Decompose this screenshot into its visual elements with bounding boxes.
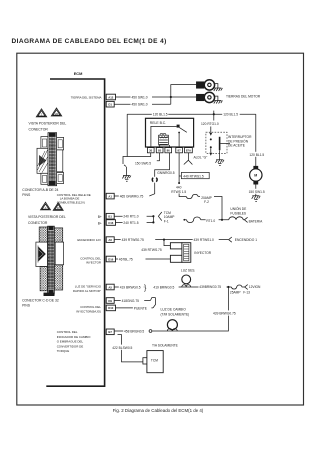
svg-text:120 BL1.5: 120 BL1.5 (249, 153, 264, 157)
battery feed line (184, 219, 244, 221)
relay box RELE B.C. (146, 118, 194, 147)
label 440 / RTWS 1.5 (171, 185, 189, 194)
wire 419 BRWG0.5 from A5 (114, 286, 245, 288)
centre pin strip (48, 226, 55, 294)
svg-text:DIAGRAMA DE CABLEADO DEL ECM(1: DIAGRAMA DE CABLEADO DEL ECM(1 DE 4) (12, 38, 167, 45)
arrow 12VIGN (245, 285, 248, 290)
svg-text:A1: A1 (108, 194, 112, 198)
svg-text:10AMP: 10AMP (164, 215, 175, 219)
svg-text:CONTROL DEL: CONTROL DEL (80, 305, 101, 309)
node junction dot injector branch (163, 239, 165, 241)
svg-text:150 SW1.5: 150 SW1.5 (249, 190, 265, 194)
fusible link UNION DE FUSIBLES (229, 217, 243, 220)
node junction dot on 120 BL1.5 (213, 113, 215, 115)
label 419 BRWG0.5 second (153, 284, 179, 289)
svg-text:CONVERTIDOR DE: CONVERTIDOR DE (57, 344, 84, 348)
wire right corner of 120 BL1.5 down to oil sender (255, 114, 257, 166)
svg-text:BATERIA: BATERIA (249, 220, 263, 224)
lamp LUZ DE CAMBIO (167, 320, 177, 330)
svg-text:120 RTG1.0: 120 RTG1.0 (201, 122, 219, 126)
warning triangle 3 (41, 202, 51, 210)
svg-text:F-1: F-1 (164, 219, 169, 223)
wire relay pin87A to ALDL (184, 153, 193, 165)
svg-text:120 BL1.5: 120 BL1.5 (153, 112, 168, 116)
relay pin 87 internal stub (178, 133, 180, 147)
label 120 BL1.5 on sender lead (249, 152, 265, 157)
pin B7 (106, 329, 114, 335)
label RT1.0 (206, 217, 219, 222)
svg-text:INYECTOR: INYECTOR (194, 251, 211, 255)
svg-text:F-2: F-2 (204, 200, 209, 204)
label 439 RTWS1.0 (193, 237, 219, 242)
ECM box outline (46, 79, 104, 386)
svg-text:419 BRWG0.5: 419 BRWG0.5 (120, 285, 141, 289)
inline connector symbol (152, 178, 157, 182)
left upper tab (41, 137, 48, 150)
pin D1 (106, 101, 114, 107)
fuse F-13 (231, 285, 242, 289)
svg-text:(T/M SOLAMENTE): (T/M SOLAMENTE) (161, 312, 190, 316)
left middle block (37, 148, 48, 173)
pin A6 (106, 237, 114, 243)
svg-text:439 RTWS0.75: 439 RTWS0.75 (122, 238, 144, 242)
wire bar to ground (219, 150, 221, 160)
pin D10 (106, 305, 115, 311)
pin A12 (106, 94, 115, 100)
svg-text:CONECTOR C-D DE 32: CONECTOR C-D DE 32 (22, 299, 59, 303)
label 150 SW1.5 (248, 189, 265, 194)
left upper hatched block (39, 227, 47, 242)
ground (oil switch) (216, 160, 225, 166)
svg-text:TORQUE: TORQUE (57, 349, 70, 353)
svg-text:GNWRG0.5: GNWRG0.5 (157, 171, 175, 175)
node junction dot (170, 96, 172, 98)
svg-text:INYECTOR: INYECTOR (86, 261, 101, 265)
wire sender to ground (255, 185, 257, 196)
relay pin 87A (185, 148, 193, 153)
svg-text:440 RTWS1.5: 440 RTWS1.5 (183, 174, 204, 178)
ground (relay 150 SW0.5) (122, 176, 131, 182)
arrow to TCM fuse (158, 212, 161, 221)
relay pin 86 (165, 148, 172, 153)
svg-text:87: 87 (178, 149, 182, 153)
wire 240 RT1.5 from C16 (116, 221, 154, 223)
svg-text:PINS: PINS (22, 303, 31, 307)
svg-text:LUZ SES.: LUZ SES. (181, 268, 196, 272)
svg-text:450 SW1.0: 450 SW1.0 (132, 103, 148, 107)
svg-text:439 RTWS.75: 439 RTWS.75 (141, 248, 162, 252)
svg-text:B1: B1 (108, 215, 112, 219)
pin A1 (106, 193, 114, 199)
svg-text:CONECTOR: CONECTOR (29, 128, 49, 132)
left middle block with wedge (36, 242, 48, 266)
svg-text:DE ACEITE: DE ACEITE (228, 144, 246, 148)
svg-text:LUZ DE "SERVICIO: LUZ DE "SERVICIO (75, 284, 102, 288)
pin B1 (106, 213, 114, 219)
svg-text:CONECTOR A-B DE 24: CONECTOR A-B DE 24 (22, 188, 58, 192)
svg-text:FUSIBLES: FUSIBLES (230, 211, 247, 215)
right middle block (57, 150, 63, 172)
wire relay pin87 down 440 RTWS1.5 (179, 153, 222, 220)
boxed label 440 RTWS1.5 (181, 172, 209, 178)
svg-text:TIERRA DEL SISTEMA: TIERRA DEL SISTEMA (71, 96, 102, 100)
oil pressure sender M (253, 166, 258, 169)
bottom tab (44, 293, 55, 296)
wire 120 BL1.5 horizontal run (127, 113, 256, 115)
wire B7 branch to TCM (118, 335, 143, 362)
ring terminal 1 (motor ground) (197, 80, 215, 90)
wire down-left corner of 120 BL1.5 to relay area (126, 114, 128, 156)
relay pin 30 (147, 148, 154, 153)
svg-text:439 BRWG0.75: 439 BRWG0.75 (213, 312, 236, 316)
diagram frame border (17, 53, 304, 405)
wire branch to injector (164, 240, 170, 246)
svg-text:INDICADOR DE CAMBIO: INDICADOR DE CAMBIO (57, 335, 91, 339)
svg-text:UNIÓN DE: UNIÓN DE (230, 206, 247, 211)
centre pin strip (48, 133, 57, 186)
warning triangle 1 (36, 109, 46, 117)
relay switch arm (179, 128, 186, 133)
svg-text:INYECTOR(BAJO): INYECTOR(BAJO) (76, 309, 101, 313)
pin A5 (106, 284, 114, 290)
label 439BRWG0.75 (199, 284, 227, 289)
svg-text:87A: 87A (186, 149, 191, 153)
svg-text:RAPIDO AL MOTOR": RAPIDO AL MOTOR" (73, 289, 101, 293)
wire 465 GNWRG.75 from A1 (114, 195, 149, 197)
wire 467BL.75 from D16 to injector low (116, 258, 171, 260)
svg-text:A6: A6 (108, 238, 112, 242)
svg-text:B7: B7 (108, 330, 112, 334)
wire junction vertical B1-C16 (152, 216, 154, 222)
svg-text:}: } (144, 285, 147, 292)
label 120 BL1.5 left (152, 111, 169, 116)
svg-text:ENCENDIDO 1: ENCENDIDO 1 (235, 238, 257, 242)
left lower tab (41, 173, 48, 184)
svg-text:439BRWG0.75: 439BRWG0.75 (199, 285, 221, 289)
svg-text:465 GNWRG.75: 465 GNWRG.75 (120, 194, 144, 198)
relay internal contact square (177, 125, 180, 128)
svg-text:Fig. 2 Diagrama de Cableado d: Fig. 2 Diagrama de Cableado del ECM(1 de… (113, 408, 204, 413)
svg-text:T/A SOLAMENTE: T/A SOLAMENTE (152, 343, 179, 347)
ground (terminal 1) (214, 84, 223, 91)
svg-text:COMBUSTIBLE(12V): COMBUSTIBLE(12V) (57, 200, 85, 204)
connector C-D rear view (36, 226, 64, 296)
svg-text:CONECTOR: CONECTOR (28, 221, 48, 225)
ring terminal 2 (motor ground) (197, 92, 215, 102)
svg-text:TIERRAS DEL MOTOR: TIERRAS DEL MOTOR (226, 95, 261, 99)
svg-text:458 BRGN0.5: 458 BRGN0.5 (124, 329, 144, 333)
relay coil (159, 135, 169, 145)
svg-text:PINS: PINS (22, 193, 31, 197)
svg-text:A5: A5 (108, 285, 112, 289)
label 439 BRWG0.75 on riser (209, 310, 243, 315)
svg-text:ALDL "G": ALDL "G" (194, 156, 209, 160)
wire 120 RTG1.0 down to oil pressure switch (211, 114, 214, 132)
pin C16 (106, 220, 115, 226)
svg-text:RT1.0: RT1.0 (206, 219, 215, 223)
warning triangle 2 (51, 108, 61, 116)
svg-text:RELE B.C.: RELE B.C. (150, 121, 166, 125)
wire 240 RT1.0 from B1 (114, 215, 153, 217)
svg-text:VISTA POSTERIOR DEL: VISTA POSTERIOR DEL (29, 122, 67, 126)
right lower hatched block (54, 265, 62, 290)
svg-text:240 RT1.5: 240 RT1.5 (123, 221, 138, 225)
left lower hatched block (40, 267, 48, 291)
svg-text:150 SW0.5: 150 SW0.5 (135, 161, 151, 165)
wire 458 BRGN0.5 from B7 to shift lamp (114, 287, 228, 331)
arrow BATERIA (244, 217, 247, 222)
right lower tab (57, 173, 64, 184)
svg-text:D10: D10 (108, 306, 114, 310)
svg-text:B+: B+ (98, 215, 102, 219)
warning triangle 4 (53, 203, 63, 211)
svg-text:D1: D1 (108, 103, 112, 107)
svg-text:20: 20 (57, 206, 61, 210)
svg-text:86: 86 (167, 149, 171, 153)
TCM terminal (143, 358, 147, 364)
relay pin 87 (176, 148, 183, 153)
svg-text:LUZ DE CAMBIO: LUZ DE CAMBIO (161, 307, 187, 311)
svg-text:RTWS 1.5: RTWS 1.5 (171, 190, 186, 194)
ground (terminal 2) (214, 96, 223, 103)
relay internal common rail (151, 126, 177, 147)
svg-text:450 SW1.0: 450 SW1.0 (132, 95, 148, 99)
svg-text:120 BL1.5: 120 BL1.5 (223, 112, 238, 116)
pin D16 (106, 256, 115, 262)
svg-text:ENCENDIDO 12V: ENCENDIDO 12V (77, 238, 101, 242)
label 120 BL1.5 right (222, 111, 240, 116)
svg-text:240 RT1.0: 240 RT1.0 (123, 215, 138, 219)
svg-text:467BL.75: 467BL.75 (119, 257, 133, 261)
svg-text:CONTROL DEL: CONTROL DEL (80, 256, 101, 260)
svg-text:PUENTE: PUENTE (134, 306, 148, 310)
wire 450 SW1.0 from D1 (114, 103, 171, 105)
relay pin 85 (156, 148, 163, 153)
wire vertical junction to ground terminals (171, 85, 197, 105)
svg-text:C16: C16 (108, 221, 114, 225)
svg-text:422 BLSW0.5: 422 BLSW0.5 (112, 346, 132, 350)
injector terminals (170, 243, 182, 249)
svg-text:D16: D16 (108, 257, 114, 261)
connector A-B rear view (37, 133, 64, 186)
wire relay pin30 to ground (123, 153, 151, 176)
wire PUENTE from D10 (116, 307, 154, 309)
right middle block (55, 242, 63, 265)
svg-text:20: 20 (55, 112, 59, 116)
wire 418GNG.75 from D9 (114, 298, 155, 301)
right upper tab (57, 137, 64, 150)
switch contacts (210, 138, 212, 140)
right upper hatched block (54, 228, 62, 242)
svg-text:419 BRWG0.5: 419 BRWG0.5 (153, 286, 174, 290)
svg-text:TCM: TCM (151, 359, 158, 363)
inline terminal circle (149, 330, 152, 333)
switch pressure bar (219, 137, 221, 150)
arrow ENCENDIDO 1 (229, 237, 232, 242)
svg-text:B+: B+ (98, 221, 102, 225)
injector body with coil (182, 243, 191, 263)
svg-text:439 RTWS1.0: 439 RTWS1.0 (194, 238, 215, 242)
wire relay pin85 stub to 150 SW0.5 (157, 153, 160, 161)
bracket D9-D10 (153, 298, 156, 308)
TCM box (147, 351, 163, 373)
wire 439 RTWS0.75 from A6 (114, 239, 228, 241)
svg-text:VISTA POSTERIOR DEL: VISTA POSTERIOR DEL (28, 215, 66, 219)
wire 450 SW1.0 from A12 (116, 96, 197, 98)
svg-text:85: 85 (158, 149, 162, 153)
node dot below boxed label (178, 182, 180, 184)
wire relay pin86 down to A1 chain (150, 153, 170, 196)
fuse RT1.0 (187, 217, 201, 223)
svg-text:12VIGN: 12VIGN (249, 285, 261, 289)
ground (sender) (252, 196, 261, 202)
node junction dot 12V feed (227, 286, 229, 288)
svg-text:M: M (254, 174, 257, 178)
svg-text:30: 30 (149, 149, 153, 153)
relay coil stubs (160, 145, 170, 147)
fuse F-2 (186, 194, 198, 198)
svg-text:CONTROL DEL: CONTROL DEL (57, 330, 78, 334)
svg-text:O EMBRAGUE DEL: O EMBRAGUE DEL (57, 340, 84, 344)
svg-text:DE PRESIÓN: DE PRESIÓN (228, 138, 249, 143)
svg-text:ECM: ECM (74, 71, 83, 76)
svg-text:D9: D9 (108, 299, 112, 303)
svg-text:418GNG.75: 418GNG.75 (122, 299, 140, 303)
svg-text:A12: A12 (108, 95, 114, 99)
pin D9 (106, 298, 114, 304)
oil pressure switch dashed box (206, 132, 227, 153)
svg-text:25AMP F-13: 25AMP F-13 (230, 290, 250, 294)
